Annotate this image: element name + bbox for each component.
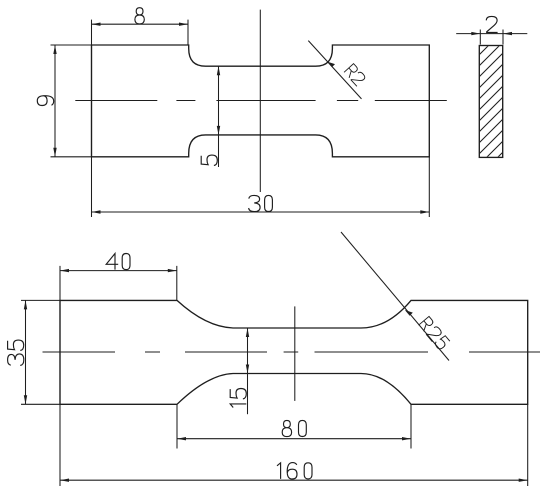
R2 leader	[308, 41, 361, 99]
label 5 (rotated)	[201, 155, 217, 165]
dim 15 arrows	[246, 328, 249, 337]
dim 35 arrows	[24, 300, 27, 309]
dim 160 arrows	[60, 479, 69, 482]
dim 40 arrows	[60, 269, 69, 272]
label R2 (rotated 47, smaller)	[344, 64, 366, 87]
label 160	[277, 463, 312, 479]
dim 160	[60, 300, 528, 486]
dim 30	[92, 45, 430, 217]
label 2 side	[486, 16, 497, 32]
dim 35	[21, 300, 60, 404]
dim 8 top: extension lines and dimension line	[92, 20, 189, 45]
label 40	[106, 254, 130, 270]
R25 arrow	[405, 310, 413, 316]
dim 9 arrows	[53, 45, 56, 54]
centerline top specimen	[75, 100, 447, 102]
label R25 (rotated 50, smaller)	[419, 316, 451, 350]
label 9 (rotated)	[37, 96, 53, 106]
R2 arrow	[327, 62, 335, 68]
vertical line bottom specimen	[294, 306, 296, 401]
side view plate	[479, 46, 502, 158]
dim 2 arrows (outside, pointing inward)	[471, 32, 480, 35]
dim 30 arrows	[92, 210, 101, 213]
bottom specimen outline	[60, 300, 528, 404]
vertical line top specimen	[259, 10, 261, 192]
dim 5 arrows	[217, 66, 220, 75]
dim 9 left	[51, 45, 92, 157]
label 15 (rotated)	[230, 389, 246, 408]
dim 80 arrows	[177, 437, 186, 440]
dim 8 arrows	[92, 23, 101, 26]
dim 15	[247, 328, 249, 414]
dim 5	[218, 66, 220, 167]
label 8	[135, 8, 144, 24]
label 35 (rotated)	[8, 340, 24, 365]
label 30	[249, 195, 273, 211]
dim 40	[60, 266, 177, 301]
centerline bottom specimen	[43, 351, 541, 353]
R25 leader	[341, 232, 449, 361]
top specimen outline	[92, 45, 430, 157]
dim 2 side	[456, 30, 527, 45]
label 80	[282, 420, 306, 436]
dim 80	[177, 404, 411, 448]
